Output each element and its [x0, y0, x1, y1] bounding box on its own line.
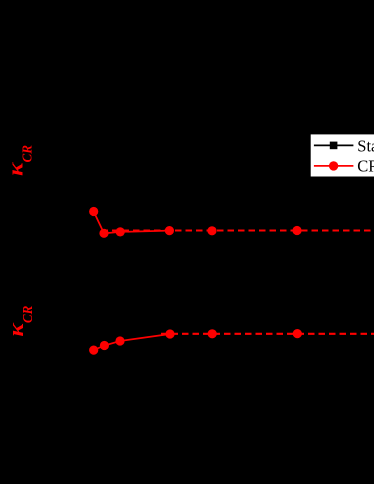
top marker point 2	[99, 229, 108, 238]
bottom marker point 3	[115, 336, 124, 345]
top marker point 6	[292, 226, 301, 235]
bottom marker point 5	[208, 329, 217, 338]
top marker point 3	[116, 227, 125, 236]
bottom marker point 4	[165, 329, 174, 338]
svg-text:Standard: Standard	[357, 136, 374, 155]
top solid CR curve	[94, 212, 170, 234]
top marker point 4	[165, 226, 174, 235]
bottom solid CR curve	[94, 334, 170, 350]
bottom marker point 6	[293, 329, 302, 338]
bottom marker point 2	[100, 341, 109, 350]
top dashed asymptote line (red)	[102, 229, 374, 231]
legend entry 2: CR red line	[314, 165, 354, 167]
legend entry 1: black square marker	[330, 142, 338, 150]
legend entry 1: Standard black line	[314, 144, 354, 146]
svg-text:κCR: κCR	[3, 306, 36, 337]
legend box (white, clipped at right edge)	[311, 134, 374, 176]
svg-text:κCR: κCR	[2, 145, 35, 176]
legend entry 2: red circle marker	[329, 161, 338, 170]
bottom dashed asymptote line (red)	[161, 333, 374, 335]
bottom marker point 1	[89, 346, 98, 355]
top marker point 5	[207, 226, 216, 235]
top marker point 1	[89, 207, 98, 216]
svg-text:CRK: CRK	[357, 156, 374, 175]
